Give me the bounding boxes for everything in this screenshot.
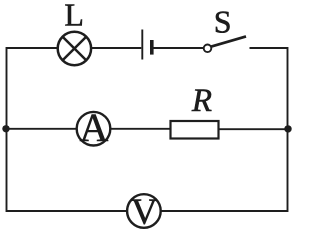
svg-text:S: S: [214, 4, 232, 40]
svg-text:L: L: [64, 0, 84, 32]
svg-text:R: R: [191, 83, 212, 119]
svg-text:A: A: [80, 105, 109, 150]
svg-text:V: V: [131, 192, 158, 233]
